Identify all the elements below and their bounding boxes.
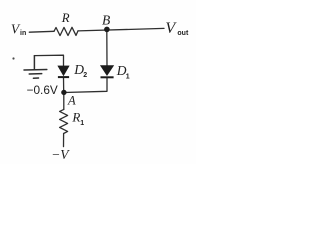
- svg-text:V: V: [165, 20, 177, 37]
- svg-text:B: B: [102, 12, 110, 27]
- svg-text:−V: −V: [51, 147, 70, 162]
- diode D2: [58, 66, 69, 77]
- svg-text:A: A: [67, 93, 76, 107]
- ground: [24, 56, 47, 79]
- wire resistor R1 to -V: [63, 134, 65, 147]
- wire D2 cathode to node A: [63, 77, 65, 92]
- diode D1: [101, 66, 114, 78]
- svg-text:1: 1: [80, 120, 84, 127]
- node A: [61, 90, 66, 95]
- svg-text:1: 1: [126, 74, 130, 81]
- svg-text:2: 2: [83, 72, 87, 79]
- wire node B to diode D1: [106, 29, 108, 65]
- wire D1 cathode to node A: [64, 77, 107, 92]
- svg-text:out: out: [177, 30, 189, 37]
- svg-text:R: R: [71, 110, 80, 125]
- svg-text:−0.6V: −0.6V: [27, 83, 58, 97]
- node B: [104, 27, 110, 33]
- wire resistor R to Vout: [78, 28, 164, 31]
- speck: [12, 57, 14, 59]
- svg-text:R: R: [61, 11, 70, 25]
- wire ground to diode D2: [34, 55, 63, 66]
- wire node A to resistor R1: [63, 92, 65, 109]
- wire Vin to resistor R: [29, 30, 54, 33]
- resistor R: [54, 27, 78, 35]
- svg-text:in: in: [20, 30, 26, 37]
- resistor R1: [60, 109, 68, 133]
